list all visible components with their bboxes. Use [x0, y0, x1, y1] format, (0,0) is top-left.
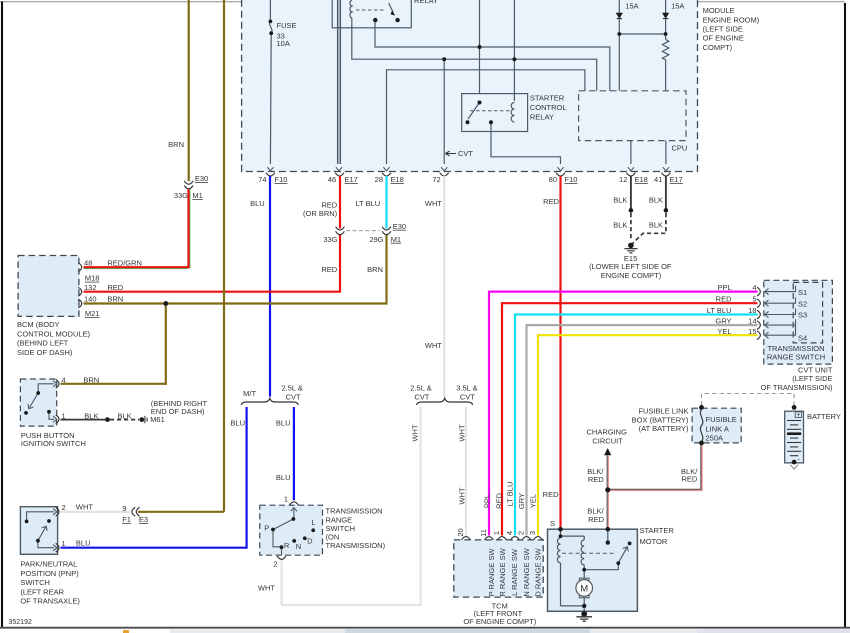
svg-text:M/T: M/T — [243, 389, 256, 398]
svg-text:ENGINE COMPT): ENGINE COMPT) — [601, 271, 662, 280]
svg-text:RED: RED — [716, 295, 732, 304]
svg-text:OF ENGINE COMPT): OF ENGINE COMPT) — [463, 617, 536, 626]
svg-text:COMPT): COMPT) — [703, 43, 733, 52]
svg-text:3.5L &: 3.5L & — [456, 384, 477, 393]
svg-text:CVT: CVT — [414, 393, 429, 402]
svg-text:12: 12 — [619, 175, 627, 184]
svg-text:M21: M21 — [85, 309, 100, 318]
svg-text:RED: RED — [588, 475, 604, 484]
svg-text:BATTERY: BATTERY — [807, 412, 841, 421]
svg-text:WHT: WHT — [457, 424, 466, 441]
svg-text:E30: E30 — [195, 174, 208, 183]
svg-text:CVT: CVT — [286, 393, 301, 402]
svg-text:RED/GRN: RED/GRN — [107, 258, 142, 267]
svg-text:80: 80 — [549, 175, 557, 184]
svg-text:BLK: BLK — [649, 195, 663, 204]
svg-text:FUSE: FUSE — [277, 21, 297, 30]
svg-text:CPU: CPU — [672, 143, 688, 152]
svg-text:RED: RED — [543, 490, 559, 499]
svg-text:CVT UNIT: CVT UNIT — [798, 366, 833, 375]
svg-text:33G: 33G — [323, 235, 337, 244]
svg-text:PPL: PPL — [483, 494, 492, 508]
svg-text:(BEHIND LEFT: (BEHIND LEFT — [17, 339, 69, 348]
svg-text:MOTOR: MOTOR — [640, 537, 668, 546]
svg-text:RED: RED — [495, 493, 504, 509]
svg-text:WHT: WHT — [258, 583, 275, 592]
svg-text:F1: F1 — [122, 515, 131, 524]
svg-text:46: 46 — [328, 175, 336, 184]
svg-text:BRN: BRN — [107, 294, 123, 303]
svg-text:2: 2 — [517, 531, 526, 535]
svg-text:S: S — [550, 519, 555, 528]
svg-text:BRN: BRN — [168, 140, 184, 149]
svg-text:SWITCH: SWITCH — [20, 578, 50, 587]
svg-text:PPL: PPL — [717, 283, 731, 292]
svg-text:S2: S2 — [798, 299, 807, 308]
svg-text:FUSIBLE: FUSIBLE — [706, 415, 737, 424]
svg-text:20: 20 — [456, 528, 465, 536]
svg-text:2.5L &: 2.5L & — [281, 384, 302, 393]
svg-text:F10: F10 — [275, 175, 288, 184]
svg-text:ENGINE ROOM): ENGINE ROOM) — [703, 15, 760, 24]
svg-text:OF ENGINE: OF ENGINE — [703, 34, 744, 43]
svg-text:WHT: WHT — [457, 487, 466, 504]
svg-text:33G: 33G — [174, 191, 188, 200]
svg-text:PARK/NEUTRAL: PARK/NEUTRAL — [20, 560, 77, 569]
svg-text:(AT BATTERY): (AT BATTERY) — [639, 424, 689, 433]
svg-text:YEL: YEL — [717, 327, 731, 336]
svg-text:TRANSMISSION): TRANSMISSION) — [326, 541, 386, 550]
svg-text:STARTER: STARTER — [640, 526, 675, 535]
svg-text:E17: E17 — [670, 175, 683, 184]
svg-text:(LOWER LEFT SIDE OF: (LOWER LEFT SIDE OF — [589, 262, 672, 271]
svg-text:BOX (BATTERY): BOX (BATTERY) — [632, 415, 689, 424]
svg-text:4: 4 — [62, 376, 66, 385]
svg-text:IGNITION SWITCH: IGNITION SWITCH — [21, 439, 86, 448]
svg-text:WHT: WHT — [76, 503, 93, 512]
svg-text:RED: RED — [588, 515, 604, 524]
svg-text:LINK A: LINK A — [706, 425, 729, 434]
svg-text:STARTER: STARTER — [530, 93, 565, 102]
svg-text:E18: E18 — [635, 175, 648, 184]
svg-text:15A: 15A — [625, 2, 638, 11]
svg-text:GRY: GRY — [715, 317, 731, 326]
svg-text:WHT: WHT — [411, 424, 420, 441]
svg-text:(ON: (ON — [326, 532, 340, 541]
svg-text:29G: 29G — [369, 235, 383, 244]
svg-text:E18: E18 — [391, 175, 404, 184]
svg-text:(OR BRN): (OR BRN) — [303, 209, 338, 218]
svg-text:MODULE: MODULE — [703, 6, 735, 15]
svg-text:CIRCUIT: CIRCUIT — [592, 437, 623, 446]
svg-text:41: 41 — [654, 175, 662, 184]
svg-text:(LEFT SIDE: (LEFT SIDE — [703, 25, 743, 34]
svg-text:9: 9 — [122, 504, 126, 513]
svg-text:LT BLU: LT BLU — [707, 306, 732, 315]
svg-text:GRY: GRY — [517, 493, 526, 509]
svg-text:BLU: BLU — [276, 419, 291, 428]
svg-text:+: + — [796, 412, 800, 419]
svg-text:4: 4 — [505, 531, 514, 535]
svg-text:E17: E17 — [345, 175, 358, 184]
svg-text:1: 1 — [284, 495, 288, 504]
svg-text:E3: E3 — [139, 515, 148, 524]
svg-text:YEL: YEL — [528, 494, 537, 508]
svg-text:RED: RED — [681, 475, 697, 484]
svg-text:M61: M61 — [150, 415, 165, 424]
svg-text:RELAY: RELAY — [414, 0, 438, 5]
svg-text:BLK: BLK — [613, 195, 627, 204]
svg-text:74: 74 — [258, 175, 266, 184]
svg-text:BLU: BLU — [276, 473, 291, 482]
svg-text:BCM (BODY: BCM (BODY — [17, 320, 60, 329]
svg-text:BLU: BLU — [76, 539, 91, 548]
svg-text:S3: S3 — [798, 311, 807, 320]
svg-text:2: 2 — [273, 560, 277, 569]
svg-text:M1: M1 — [391, 235, 401, 244]
svg-text:TRANSMISSION: TRANSMISSION — [326, 507, 383, 516]
svg-text:SIDE OF DASH): SIDE OF DASH) — [17, 348, 73, 357]
svg-text:BLK: BLK — [613, 221, 627, 230]
svg-text:2.5L &: 2.5L & — [410, 384, 431, 393]
svg-text:N RANGE SW: N RANGE SW — [522, 547, 531, 596]
svg-text:LT BLU: LT BLU — [355, 199, 380, 208]
svg-text:BRN: BRN — [83, 376, 99, 385]
svg-text:WHT: WHT — [425, 199, 442, 208]
svg-text:11: 11 — [479, 529, 488, 537]
svg-text:CVT: CVT — [458, 149, 473, 158]
svg-text:5: 5 — [752, 295, 756, 304]
svg-text:R: R — [284, 541, 290, 550]
svg-text:1: 1 — [492, 531, 501, 535]
svg-text:250A: 250A — [706, 434, 724, 443]
svg-text:BLK: BLK — [649, 221, 663, 230]
svg-text:CVT: CVT — [460, 393, 475, 402]
svg-text:BLU: BLU — [250, 199, 265, 208]
svg-text:(LEFT SIDE: (LEFT SIDE — [792, 374, 832, 383]
svg-text:WHT: WHT — [425, 341, 442, 350]
svg-text:RANGE SWITCH: RANGE SWITCH — [767, 353, 825, 362]
svg-text:15A: 15A — [671, 2, 684, 11]
svg-text:L: L — [311, 518, 315, 527]
svg-text:POSITION (PNP): POSITION (PNP) — [20, 569, 79, 578]
svg-text:CHARGING: CHARGING — [586, 428, 627, 437]
svg-text:D: D — [307, 537, 313, 546]
svg-text:RED: RED — [321, 265, 337, 274]
svg-text:352192: 352192 — [9, 619, 32, 626]
svg-text:FUSIBLE LINK: FUSIBLE LINK — [638, 407, 688, 416]
svg-text:CONTROL MODULE): CONTROL MODULE) — [17, 329, 91, 338]
svg-text:RELAY: RELAY — [530, 112, 554, 121]
svg-text:RED: RED — [107, 283, 123, 292]
svg-text:D RANGE SW: D RANGE SW — [533, 547, 542, 596]
svg-text:N: N — [296, 542, 301, 551]
svg-text:3: 3 — [528, 531, 537, 535]
svg-text:18: 18 — [748, 306, 756, 315]
svg-text:14: 14 — [748, 317, 756, 326]
svg-text:CONTROL: CONTROL — [530, 103, 567, 112]
svg-text:OF TRANSMISSION): OF TRANSMISSION) — [761, 383, 833, 392]
svg-text:BLU: BLU — [230, 419, 245, 428]
svg-text:132: 132 — [84, 283, 97, 292]
svg-text:72: 72 — [432, 175, 440, 184]
svg-text:L RANGE SW: L RANGE SW — [510, 548, 519, 596]
svg-text:RED: RED — [543, 197, 559, 206]
svg-text:(LEFT REAR: (LEFT REAR — [20, 587, 64, 596]
svg-text:P RANGE SW: P RANGE SW — [487, 548, 496, 597]
svg-text:10A: 10A — [277, 39, 290, 48]
svg-text:BLK: BLK — [118, 411, 132, 420]
svg-text:E30: E30 — [393, 222, 406, 231]
svg-text:LT BLU: LT BLU — [505, 482, 514, 507]
svg-text:M18: M18 — [85, 274, 100, 283]
svg-text:R RANGE SW: R RANGE SW — [498, 547, 507, 596]
svg-text:BRN: BRN — [367, 265, 383, 274]
svg-text:F10: F10 — [565, 175, 578, 184]
svg-text:M1: M1 — [192, 191, 202, 200]
svg-text:4: 4 — [752, 283, 756, 292]
svg-text:140: 140 — [84, 294, 97, 303]
svg-text:OF TRANSAXLE): OF TRANSAXLE) — [20, 597, 80, 606]
svg-text:P: P — [264, 524, 269, 533]
svg-text:S4: S4 — [798, 334, 807, 343]
svg-text:48: 48 — [84, 258, 92, 267]
svg-text:M: M — [580, 583, 588, 594]
svg-text:S1: S1 — [798, 288, 807, 297]
svg-text:28: 28 — [375, 175, 383, 184]
svg-text:15: 15 — [748, 327, 756, 336]
